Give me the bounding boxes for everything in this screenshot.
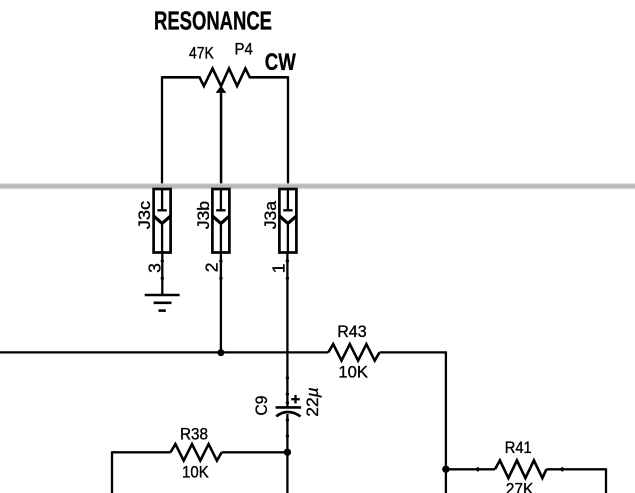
wire R43 right to corner [380, 351, 446, 353]
svg-text:P4: P4 [235, 41, 253, 59]
wire pot left end down to J3c [161, 76, 163, 183]
connector J3c [154, 189, 171, 253]
wire R41 right corner down [605, 468, 607, 493]
capacitor C9 top plate [276, 406, 302, 409]
junction dot at R41 [442, 466, 449, 473]
plus sign of C9 [291, 395, 300, 404]
wire tick above ground [161, 277, 164, 279]
wire tick left of R41 [477, 467, 479, 471]
wire tick above C9 plate [286, 402, 289, 404]
wire J3b down to junction [220, 253, 222, 354]
svg-text:10K: 10K [182, 463, 209, 481]
svg-text:47K: 47K [189, 45, 214, 63]
junction dot at C9/R38 [284, 449, 291, 456]
wire C9 bottom down to bottom edge [286, 414, 288, 493]
wire tick below C9 [286, 419, 289, 421]
wire tick below J3c rect [161, 260, 164, 262]
wire tick right of R41 [561, 467, 563, 471]
svg-text:R38: R38 [180, 425, 208, 443]
wire tick above R38 junction [286, 435, 289, 437]
wire R41 left [446, 468, 495, 470]
svg-text:22µ: 22µ [304, 387, 322, 417]
svg-text:2: 2 [202, 263, 222, 273]
svg-text:C9: C9 [253, 396, 271, 416]
resistor R43 [328, 344, 379, 361]
svg-text:RESONANCE: RESONANCE [154, 5, 272, 35]
wire tick below J3b rect [219, 260, 222, 262]
svg-text:J3a: J3a [262, 200, 280, 229]
wire R41 right [546, 468, 606, 470]
wiper arrow of P4 [216, 86, 227, 184]
wire J3a down through C9 [286, 253, 288, 407]
potentiometer P4 body [162, 69, 288, 87]
wire tick on J3b wire [219, 277, 222, 279]
ground [145, 295, 180, 311]
main horizontal wire [0, 351, 328, 353]
wire tick on J3a wire [286, 277, 289, 279]
svg-text:R43: R43 [337, 323, 367, 341]
wire R38 left corner down [111, 451, 113, 493]
svg-text:J3c: J3c [136, 201, 154, 229]
wire corner down right side [445, 351, 447, 493]
svg-text:10K: 10K [338, 364, 368, 382]
resistor R41 [495, 460, 546, 478]
resistor R38 [171, 444, 222, 461]
wire R38 left [112, 451, 171, 453]
capacitor C9 curved plate [276, 412, 300, 416]
wire tick above C9 [286, 377, 289, 379]
wire tick at C9 top pin [286, 393, 289, 395]
svg-text:J3b: J3b [195, 201, 213, 229]
svg-text:1: 1 [269, 264, 289, 274]
svg-text:R41: R41 [505, 439, 532, 457]
wire tick below J3a rect [286, 260, 289, 262]
connector J3a [279, 189, 296, 253]
junction dot at J3b wire [217, 349, 224, 356]
wire pot right end down to J3a [287, 76, 289, 183]
wire R38 right [222, 451, 288, 453]
svg-text:CW: CW [265, 49, 296, 76]
connector J3b [212, 189, 229, 253]
svg-text:27K: 27K [506, 480, 534, 493]
wire J3c to ground [161, 253, 163, 295]
